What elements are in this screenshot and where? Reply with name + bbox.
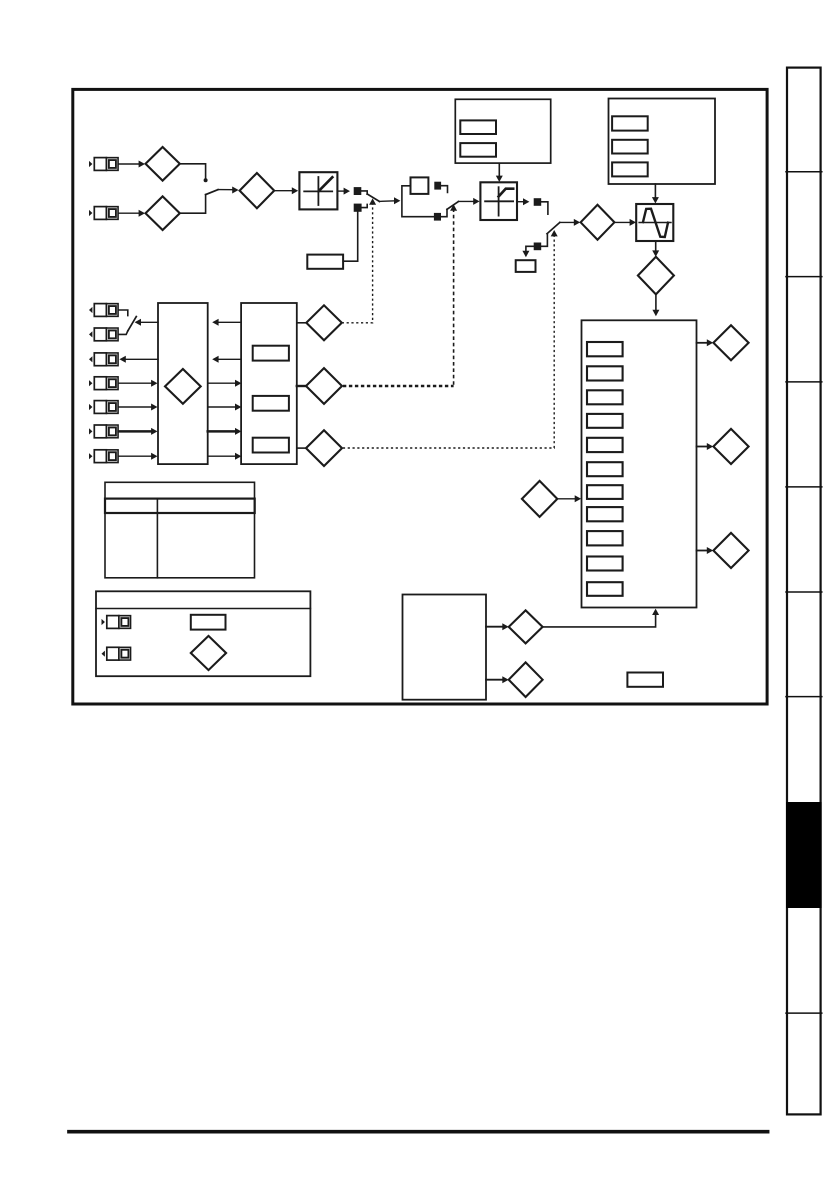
sequencer diamond P1.11 [509, 610, 543, 643]
switch S1 upper contact dot [204, 178, 208, 182]
wire diamond P1.36 to switch S1 upper contact [180, 164, 206, 179]
wire T4 to switch S5 lower contact [119, 331, 128, 335]
pre-skip reference diamond P1.03 [581, 205, 615, 240]
routing node N3 [434, 182, 441, 190]
select dashed line from diamond P1.16 to switch S4 [343, 230, 558, 448]
select diamond P1.16 [306, 430, 342, 466]
routing node N6 [534, 243, 542, 251]
preset parameter box 2 [253, 396, 289, 411]
routing node N4 [434, 213, 441, 221]
legend box header divider [96, 608, 310, 610]
wire box B2 to terminal T5 with arrow [119, 356, 158, 363]
mid tall box B2 (destination router) [158, 303, 208, 464]
key table outer frame [105, 482, 255, 578]
skip frequency filter box U4 (wave icon) [636, 204, 673, 241]
wire box B2 to box B3 row5 with arrow [208, 404, 242, 411]
parameter box row 3 [587, 390, 623, 404]
output terminal T4 [89, 328, 118, 341]
wire node N6 down to indicator box P1.51 [522, 246, 533, 257]
input terminal T7 [89, 401, 118, 414]
router diamond P1.49 inside box B2 [165, 369, 201, 404]
indicator parameter box P1.51 [516, 260, 536, 272]
wire diamond P1.37 to switch S1 lower contact [180, 195, 206, 214]
switch S2 lever [367, 194, 379, 201]
wire switch S4 to diamond P1.03 with arrow [560, 219, 580, 226]
reference selected diamond P1.01 [240, 173, 275, 208]
tab divider 5 [786, 591, 822, 593]
wire container C1 down to limit box with arrow [496, 163, 503, 182]
wire box B5 to diamond P1.12 with arrow [486, 676, 509, 683]
routing node N2 [354, 204, 362, 212]
parameter box row 9 [587, 531, 623, 545]
parameter box row 10 [587, 557, 623, 571]
invert box U2 [411, 177, 429, 194]
wire T3 to switch S5 upper contact [119, 310, 128, 316]
wire diamond P1.03 to skip-filter box with arrow [614, 219, 636, 226]
output diamond P1.41 [713, 429, 748, 464]
tab divider 2 [786, 276, 822, 278]
stub box B3 to diamond P1.14 [297, 322, 307, 324]
parameter box P1.30 [612, 140, 648, 154]
wire box B2 to box B3 row7 with arrow [208, 453, 242, 460]
active chapter tab (black) [786, 802, 822, 908]
tab divider 9 [786, 1012, 822, 1014]
wire big box to diamond P1.41 with arrow [697, 443, 714, 450]
wire T2 to diamond P1.37 with arrow [119, 210, 145, 217]
sequencer diamond P1.12 [509, 662, 543, 697]
wire node N1 to switch S2 upper contact [361, 191, 367, 194]
input terminal T9 [89, 450, 118, 463]
skip parameters container box C2 [609, 99, 716, 185]
preset parameter box 3 [253, 438, 289, 453]
parameter box row 7 [587, 485, 623, 499]
select diamond P1.14 [306, 305, 342, 340]
velocity feed diamond P1.39 [522, 481, 557, 517]
parameter diamond P1.36 [146, 147, 180, 181]
bipolar reference box U1 [299, 172, 337, 209]
wire node N6 to switch S4 lower contact [541, 234, 547, 246]
post-skip reference diamond P1.02 [638, 257, 674, 295]
output terminal T3 [89, 304, 118, 317]
output terminal T5 [89, 353, 118, 366]
reference menu big box B1 [582, 320, 697, 607]
wire diamond P1.01 to bipolar-select box with arrow [274, 187, 298, 194]
input terminal T6 [89, 377, 118, 390]
wire box B3 to box B2 row1 with arrow [212, 319, 241, 326]
stub box B3 to diamond P1.15 [297, 385, 306, 387]
tab divider 3 [786, 381, 822, 383]
legend box B4 [96, 591, 310, 676]
wire switch S2 output with arrow [379, 197, 400, 204]
wire node N5 to switch S4 upper contact [541, 202, 548, 214]
preset indicator parameter box P1.50 [307, 255, 343, 269]
wire big box to diamond P1.40 with arrow [697, 339, 714, 346]
footer rule [69, 1130, 768, 1134]
legend output terminal sample [102, 647, 131, 660]
wire box B3 to box B2 row3 with arrow [212, 356, 241, 363]
switch S3 lever [447, 202, 458, 210]
wire T6 into box B2 with arrow [119, 380, 158, 387]
input terminal T8 [89, 425, 118, 438]
legend parameter box sample [191, 615, 226, 630]
output diamond P1.42 [713, 533, 748, 568]
wire switch S3 to limit box with arrow [458, 198, 479, 205]
invert selector split wire [402, 186, 434, 217]
legend input terminal sample [102, 616, 131, 629]
wire container C2 down to skip-filter box with arrow [652, 184, 659, 204]
parameter box row 8 [587, 507, 623, 521]
parameter box row 6 [587, 462, 623, 476]
parameter box P1.10 [627, 673, 663, 687]
wire node N3 to switch S3 upper contact [441, 186, 447, 193]
reference limit box U3 [480, 182, 517, 220]
legend diamond sample [191, 636, 226, 670]
wire T1 to diamond P1.36 with arrow [119, 161, 145, 168]
wire node N2 down to preset indicator box [343, 212, 358, 261]
tab divider 4 [786, 486, 822, 488]
select diamond P1.15 [306, 368, 342, 404]
wire T9 into box B2 with arrow [119, 453, 158, 460]
parameter diamond P1.37 [146, 196, 180, 230]
output diamond P1.40 [713, 325, 748, 360]
key table header band [105, 499, 255, 513]
switch S1 lever [206, 190, 218, 195]
parameter box row 5 [587, 438, 623, 452]
tab divider 6 [786, 696, 822, 698]
parameter box P1.31 [612, 162, 648, 176]
parameter box row 11 [587, 582, 623, 596]
wire switch S1 to diamond P1.01 with arrow [218, 187, 239, 194]
parameter box row 2 [587, 366, 623, 380]
wire node N2 to switch S2 lower contact [362, 204, 368, 207]
input terminal T2 (analog ref 2) [89, 207, 118, 220]
wire box B5 to diamond P1.11 with arrow [486, 623, 509, 630]
tab divider 1 [786, 171, 822, 173]
diagram border frame [73, 89, 767, 704]
wire diamond P1.11 up into big box with arrow [543, 609, 660, 627]
wire T8 into box B2 with arrow (bold) [119, 428, 158, 435]
select dashed line from diamond P1.14 to switch S2 [342, 198, 376, 322]
parameter box P1.07 [460, 120, 496, 134]
key table column divider [156, 499, 158, 578]
wire node N4 to switch S3 lower contact [441, 209, 447, 216]
parameter box P1.29 [612, 116, 648, 130]
input terminal T1 (analog ref 1) [89, 158, 118, 171]
switch S4 lever [547, 222, 560, 233]
parameter box P1.06 [460, 143, 496, 157]
wire limit box output with arrow [517, 198, 529, 205]
routing node N5 [534, 198, 542, 206]
parameter box row 4 [587, 414, 623, 428]
chapter tab sidebar frame [787, 68, 821, 1115]
wire skip-filter box to diamond P1.02 with arrow [652, 241, 659, 257]
stub box B3 to diamond P1.16 [297, 447, 306, 449]
wire diamond P1.39 into big box with arrow [557, 495, 581, 502]
mid tall box B3 (preset reference bank) [241, 303, 297, 464]
wire T7 into box B2 with arrow [119, 404, 158, 411]
wire big box to diamond P1.42 with arrow [697, 547, 714, 554]
reference parameter container box C1 [455, 99, 550, 163]
mode box B5 [403, 595, 487, 700]
wire box B2 to box B3 row4 with arrow [208, 380, 242, 387]
wire U1 output with arrow [337, 188, 350, 195]
select dashed line from diamond P1.15 to switch S3 [343, 204, 457, 386]
key table title divider [105, 498, 255, 500]
wire box B2 to switch S5 with arrow [135, 319, 158, 326]
parameter box row 1 [587, 342, 623, 356]
wire diamond P1.02 to reference menu box with arrow [652, 294, 659, 316]
switch S5 lever [128, 317, 137, 331]
preset parameter box 1 [253, 346, 289, 361]
routing node N1 [354, 187, 362, 195]
wire box B2 to box B3 row6 with arrow (bold) [208, 428, 242, 435]
